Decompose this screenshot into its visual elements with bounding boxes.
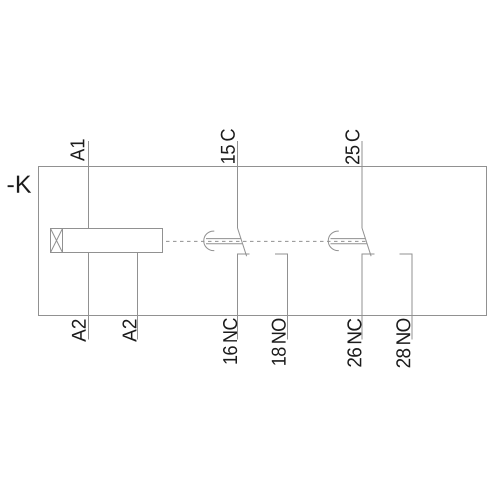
terminal 16NC wire bbox=[238, 254, 250, 340]
wire A1 bbox=[88, 141, 90, 229]
terminal 28NO wire bbox=[400, 254, 413, 340]
enclosure box K bbox=[39, 167, 487, 316]
wire 15C bbox=[237, 141, 239, 228]
label 15C bbox=[221, 129, 235, 163]
wire 25C bbox=[361, 141, 363, 228]
label 28NO bbox=[396, 319, 410, 368]
wire A2 (first) bbox=[88, 253, 90, 340]
label A2 (second) bbox=[122, 320, 136, 342]
label A2 (first) bbox=[72, 320, 86, 342]
wire mechanical link (dashed) bbox=[163, 240, 367, 242]
label -K bbox=[8, 176, 32, 193]
terminal 26NC wire bbox=[362, 254, 375, 340]
label 18NO bbox=[272, 319, 286, 365]
wire A2 (second) bbox=[137, 253, 139, 340]
label 16NC bbox=[223, 318, 237, 363]
label 26NC bbox=[347, 319, 361, 367]
terminal 18NO wire bbox=[275, 254, 288, 340]
contact S2 moving blade bbox=[362, 228, 371, 256]
contact S1 moving blade bbox=[238, 228, 247, 256]
label 25C bbox=[345, 130, 359, 164]
off-delay symbol (contact S2) bbox=[328, 231, 367, 251]
label A1 bbox=[71, 139, 85, 161]
off-delay symbol (contact S1) bbox=[204, 231, 243, 251]
coil K1 bbox=[51, 229, 163, 253]
